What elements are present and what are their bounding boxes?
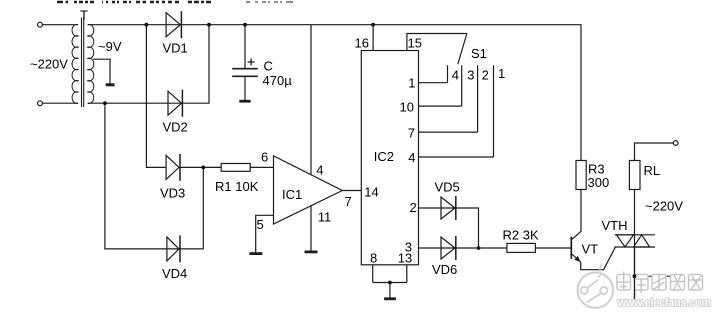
svg-text:7: 7 [408,125,415,140]
svg-text:T: T [80,8,88,23]
svg-text:RL: RL [644,163,661,178]
resistor R1 [221,164,250,172]
resistor R3 [576,161,586,190]
wire IC1 output pin7 to IC2 pin14 [342,190,361,192]
diode VD2 [168,90,182,117]
wire VT emitter to triac gate [581,247,616,270]
wire IC2 pins 8 and 13 to ground [373,265,407,298]
transformer T secondary coil [88,24,94,103]
node rail-C [243,23,247,27]
svg-text:4: 4 [452,67,459,82]
svg-text:VT: VT [582,241,599,256]
svg-text:VD5: VD5 [435,180,460,195]
wire IC2 pin3 through VD6 to R2 [419,247,507,249]
wire IC1 pin11 to ground [310,206,312,251]
switch contact 4 bar [447,65,449,82]
wire IC2 pin15 to switch pole [407,34,467,51]
wire IC2 pin16 to rail [372,25,374,51]
diode VD5 [441,196,456,220]
node rail-VD3 [145,23,149,27]
wire IC2 pin1 to contact 4 [419,82,448,84]
terminal circle top left [38,22,43,27]
node triac bottom [633,274,637,278]
wire IC2 pin4 to contact 1 [419,156,494,158]
wire R2 to VT base [535,247,571,249]
wire AC1 branch to VD3 [146,25,166,168]
op-amp IC1 [274,156,343,224]
node rail-VD2 [207,23,211,27]
node IC2 ground [388,281,392,285]
watermark text elecfans [617,272,703,294]
svg-text:300: 300 [588,175,610,190]
ground bar IC2 [384,297,396,300]
svg-text:2: 2 [410,200,417,215]
svg-text:~220V: ~220V [645,198,683,213]
wire triac vertical redrawn over watermark [634,247,636,299]
svg-text:4: 4 [316,163,323,178]
wire triac node right stub [635,275,673,277]
wire RL top to terminal [635,143,674,161]
transformer T core [82,18,84,108]
svg-text:S1: S1 [471,46,487,61]
svg-text:15: 15 [408,36,422,51]
wire IC2 pin10 to contact 3 [419,105,462,107]
capacitor C plates [232,69,258,77]
wire top rail (+V) [88,25,581,161]
svg-text:10: 10 [400,99,414,114]
svg-text:470µ: 470µ [263,73,293,88]
svg-text:7: 7 [345,194,352,209]
IC2 box [361,51,418,265]
diode VD3 [166,154,180,181]
wire center tap [93,59,110,83]
svg-text:~220V: ~220V [30,57,68,72]
svg-text:8: 8 [370,251,377,266]
wire IC2 pin7 to contact 2 [419,131,478,133]
wire IC1 pin4 to rail [310,25,312,175]
transistor VT emitter diagonal [572,254,581,262]
svg-text:6: 6 [261,150,268,165]
diode VD4 [167,235,180,262]
svg-text:1: 1 [408,75,415,90]
terminal circle right [673,141,678,146]
svg-text:5: 5 [257,217,264,232]
svg-text:VD3: VD3 [160,186,185,201]
svg-text:VTH: VTH [602,218,628,233]
diode VD6 [441,236,456,260]
watermark logo circle [578,264,613,308]
svg-text:~9V: ~9V [98,39,122,54]
svg-text:2: 2 [482,67,489,82]
wire VD3 cathode to R1 [180,166,221,168]
svg-text:14: 14 [364,185,378,200]
terminal circle bottom left [38,101,43,106]
resistor RL [629,161,640,190]
resistor R2 [507,243,536,252]
svg-text:VD1: VD1 [163,41,188,56]
watermark glyph 5 [689,275,703,291]
svg-text:www.elecfans.com: www.elecfans.com [617,297,712,309]
wire triac bottom down [634,247,636,299]
capacitor plus sign [248,59,255,66]
ground bar pin11 [305,250,318,253]
watermark glyph 4 [671,275,685,291]
svg-text:IC2: IC2 [374,149,394,164]
switch contact 3 bar [461,65,463,106]
switch contact 2 bar [477,65,479,132]
watermark glyph 3 [652,275,666,291]
svg-text:R1 10K: R1 10K [215,179,259,194]
transistor VT emitter arrow [574,256,580,262]
diode VD1 [166,11,181,38]
svg-text:C: C [264,59,273,74]
svg-text:VD4: VD4 [162,266,187,281]
wire IC2 pin2 through VD5 [419,208,479,248]
watermark glyph 1 [617,275,631,291]
wire capacitor branch [244,25,246,101]
node R1 input [201,166,205,170]
wire AC2 branch to VD4 and riser to R1 node [105,103,203,249]
ground bar center tap [106,83,115,86]
node stub end [671,274,675,278]
svg-text:13: 13 [398,251,412,266]
svg-text:3: 3 [467,67,474,82]
svg-text:VD6: VD6 [432,262,457,277]
svg-text:1: 1 [498,66,505,81]
cut-off caption text at top edge [57,1,293,3]
wire primary top [43,24,79,26]
svg-text:R2 3K: R2 3K [503,227,539,242]
svg-text:IC1: IC1 [282,187,302,202]
svg-text:4: 4 [408,150,415,165]
svg-text:11: 11 [318,209,332,224]
wire IC1 pin5 to ground [256,215,274,252]
wire secondary bottom with riser from VD2 cathode [88,25,209,104]
wire primary bottom [43,102,79,104]
transistor VT base bar [570,237,572,259]
switch contact 1 bar [493,65,495,157]
ground bar capacitor [239,100,250,103]
svg-text:16: 16 [355,36,369,51]
wire R1 to IC1 pin6 [250,166,273,168]
wire R3 bottom to VT collector [572,190,581,240]
ground bar pin5 [249,252,262,255]
node secondary-VD4 [103,101,107,105]
node VD5-VD6 [477,246,481,250]
svg-text:VD2: VD2 [163,120,188,135]
triac VTH [614,235,655,247]
node rail-pin16 [371,23,375,27]
transformer T primary coil [72,24,78,103]
wire RL bottom to triac [634,190,636,235]
watermark glyph 2 [635,275,649,291]
switch S1 arm [458,34,467,65]
